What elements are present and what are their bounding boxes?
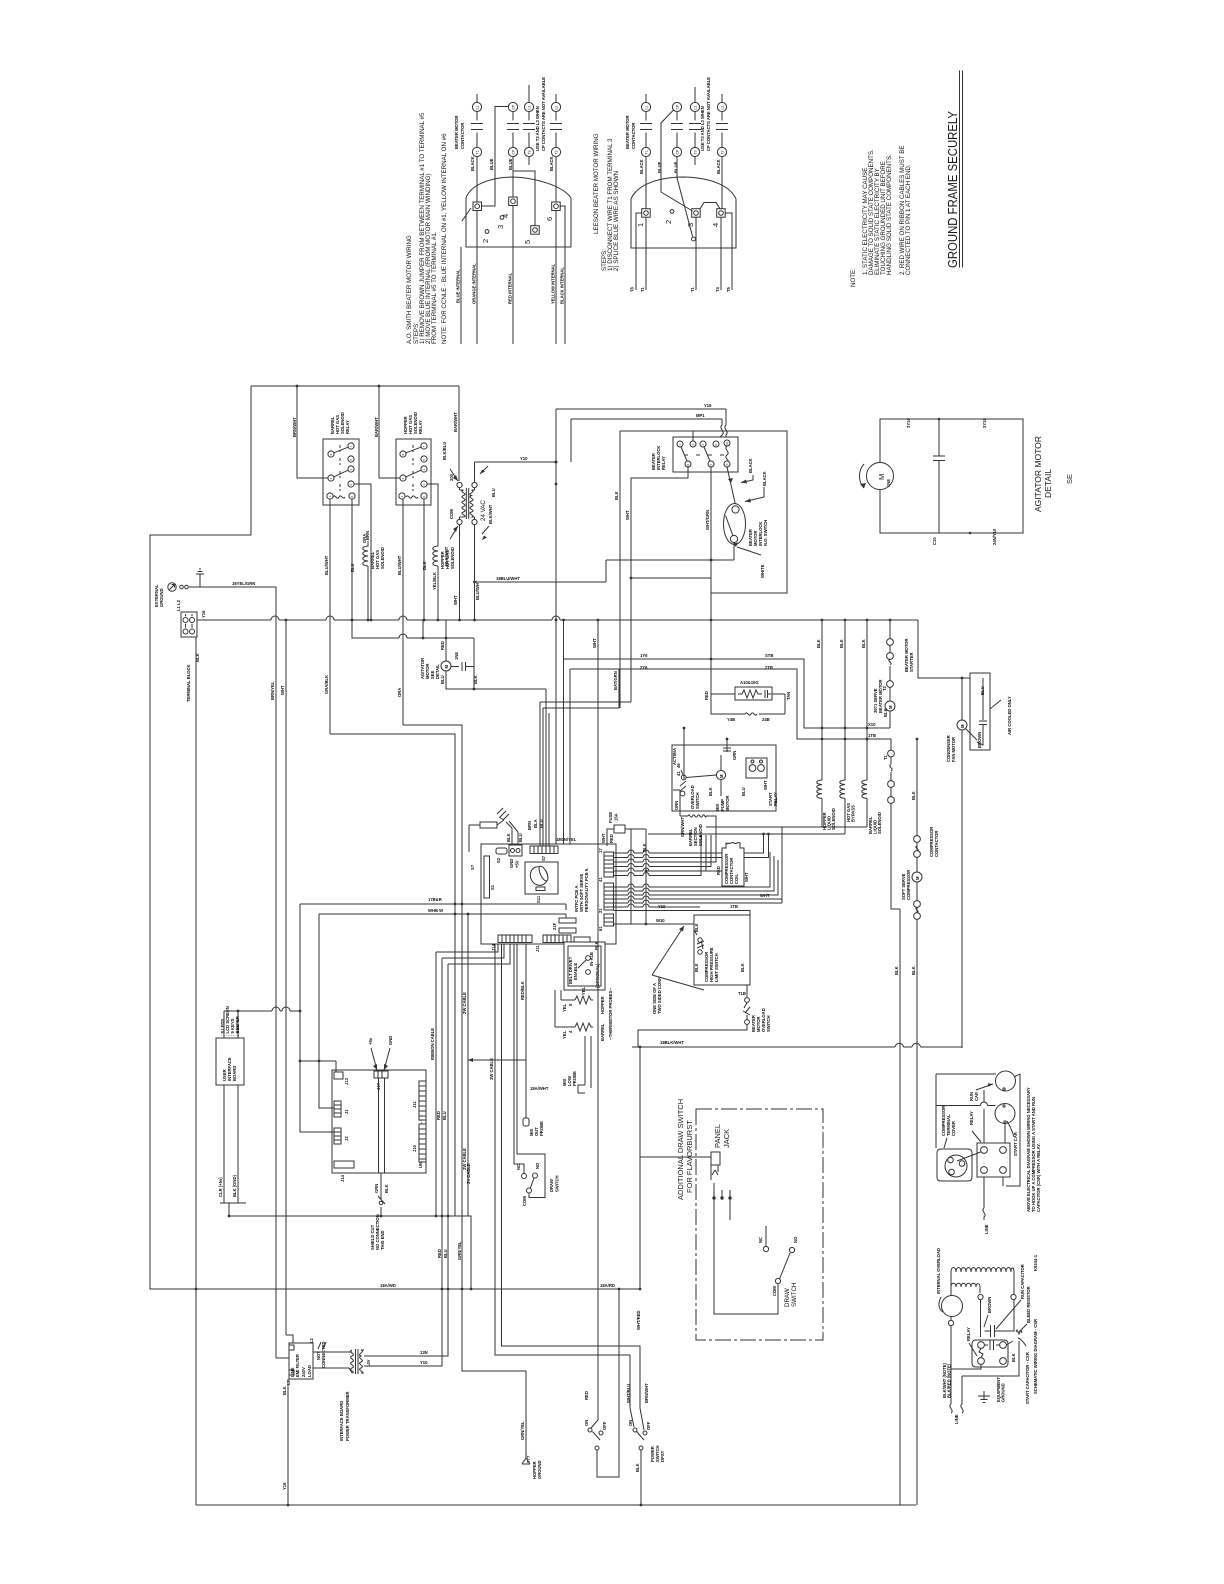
svg-text:BLACK: BLACK (748, 458, 753, 473)
svg-text:S11: S11 (536, 895, 541, 903)
svg-text:USE T3 AND L3 WHEN: USE T3 AND L3 WHEN (700, 106, 705, 151)
svg-text:RED: RED (584, 1391, 589, 1400)
svg-text:CP: CP (512, 104, 516, 109)
svg-text:CP CONTACTS ARE NOT AVAILABLE: CP CONTACTS ARE NOT AVAILABLE (541, 77, 546, 151)
svg-text:18BLU/WHT: 18BLU/WHT (496, 576, 520, 581)
svg-text:S2: S2 (496, 857, 501, 863)
svg-text:RED/BLK: RED/BLK (520, 981, 525, 1000)
svg-text:RELAY: RELAY (345, 420, 350, 434)
svg-text:CONNECTED: CONNECTED (321, 1341, 326, 1368)
svg-text:CP CONTACTS ARE NOT AVAILABLE: CP CONTACTS ARE NOT AVAILABLE (706, 77, 711, 151)
svg-text:DETAIL: DETAIL (1043, 469, 1053, 498)
svg-text:BLK: BLK (694, 923, 699, 932)
svg-text:T1: T1 (640, 286, 645, 292)
svg-text:1N8: 1N8 (886, 479, 891, 487)
svg-text:PROBE: PROBE (539, 1121, 544, 1136)
svg-text:1TB: 1TB (868, 733, 876, 738)
svg-text:J14: J14 (340, 1174, 345, 1182)
svg-text:BLACK: BLACK (470, 156, 475, 171)
svg-text:T3: T3 (694, 150, 698, 154)
svg-text:USE T3 AND L3 WHEN: USE T3 AND L3 WHEN (535, 106, 540, 151)
svg-text:1Y6: 1Y6 (640, 653, 648, 658)
svg-text:BLK: BLK (708, 787, 713, 796)
svg-text:3: 3 (496, 225, 505, 229)
svg-text:PERSONALITY PCB 9.: PERSONALITY PCB 9. (584, 868, 589, 912)
svg-text:WHT: WHT (760, 893, 770, 898)
svg-text:HANDLING SOLID STATE COMPONENT: HANDLING SOLID STATE COMPONENTS. (886, 154, 893, 275)
svg-text:GRA/BLK: GRA/BLK (324, 675, 329, 694)
svg-text:BLK: BLK (883, 708, 888, 717)
svg-text:FROM TERMINAL #5 TO TERMINAL #: FROM TERMINAL #5 TO TERMINAL #1. (431, 231, 438, 344)
svg-text:COMPRESSOR: COMPRESSOR (906, 870, 911, 900)
svg-text:BLK: BLK (350, 563, 355, 572)
svg-text:BLK/WHT: BLK/WHT (488, 504, 493, 524)
svg-text:GROUND FRAME SECURELY: GROUND FRAME SECURELY (945, 111, 960, 268)
svg-text:RUN CAPACITOR: RUN CAPACITOR (1020, 1264, 1025, 1299)
svg-text:BLU: BLU (518, 833, 523, 842)
svg-text:BRN/WHT: BRN/WHT (644, 1383, 649, 1403)
svg-text:BLACK INTERNAL: BLACK INTERNAL (560, 267, 565, 304)
svg-text:L2: L2 (555, 106, 559, 110)
svg-text:GROUND: GROUND (1001, 1383, 1006, 1402)
svg-text:YELLOW INTERNAL: YELLOW INTERNAL (551, 263, 556, 304)
svg-text:NO: NO (793, 1236, 798, 1243)
svg-text:JACK: JACK (722, 1129, 731, 1148)
svg-text:SE: SE (1065, 474, 1074, 484)
svg-text:L1: L1 (645, 106, 649, 110)
svg-text:OFF: OFF (602, 1421, 607, 1430)
svg-text:WHB W: WHB W (428, 908, 443, 913)
svg-text:GRA: GRA (362, 534, 367, 543)
svg-text:1: 1 (636, 223, 645, 227)
svg-text:BAR/WHT: BAR/WHT (453, 412, 458, 432)
svg-text:2: 2 (481, 239, 490, 243)
svg-text:3: 3 (686, 223, 695, 227)
svg-text:MOTOR: MOTOR (725, 795, 730, 811)
svg-text:BOARD: BOARD (232, 1066, 237, 1081)
svg-text:BAR/WHT: BAR/WHT (374, 417, 379, 437)
svg-text:WHT: WHT (280, 685, 285, 695)
svg-text:A.O. SMITH BEATER MOTOR WIRING: A.O. SMITH BEATER MOTOR WIRING (406, 235, 413, 344)
svg-text:41: 41 (676, 771, 681, 776)
svg-text:ADDITIONAL DRAW SWITCH: ADDITIONAL DRAW SWITCH (676, 1099, 685, 1200)
svg-text:240V: 240V (301, 1367, 306, 1377)
svg-text:T3: T3 (528, 150, 532, 154)
svg-text:L1: L1 (476, 106, 480, 110)
svg-text:BLU/WHT: BLU/WHT (397, 555, 402, 575)
svg-text:T1B: T1B (738, 991, 746, 996)
svg-text:WHT: WHT (601, 833, 606, 843)
svg-text:FAN MOTOR: FAN MOTOR (951, 737, 956, 762)
svg-text:POWER TRANSFORMER: POWER TRANSFORMER (345, 1391, 350, 1441)
svg-text:S1: S1 (490, 884, 495, 890)
svg-text:CONTACTOR: CONTACTOR (934, 831, 939, 857)
svg-text:SOLENOID: SOLENOID (450, 547, 455, 569)
svg-text:Y10: Y10 (420, 1360, 428, 1365)
svg-text:24N/Y10: 24N/Y10 (992, 528, 997, 545)
svg-text:18GN/YEL: 18GN/YEL (556, 837, 577, 842)
svg-text:BLU: BLU (741, 787, 746, 796)
svg-text:Y16: Y16 (201, 610, 206, 618)
svg-text:BLUE: BLUE (674, 161, 679, 173)
svg-text:2) SPLICE BLUE WIRE AS SHOWN: 2) SPLICE BLUE WIRE AS SHOWN (613, 171, 620, 271)
svg-text:T8: T8 (630, 286, 635, 292)
svg-text:J2: J2 (344, 1136, 349, 1141)
svg-text:LINE: LINE (954, 1414, 959, 1424)
svg-text:SOLENOID: SOLENOID (877, 812, 882, 834)
svg-text:BLK: BLK (894, 966, 899, 975)
svg-text:W10: W10 (656, 918, 665, 923)
svg-text:WHITE: WHITE (760, 564, 765, 578)
svg-text:CP: CP (676, 104, 680, 109)
svg-text:BLK (GND): BLK (GND) (232, 1175, 237, 1197)
svg-text:?7?: ?7? (526, 1455, 531, 1463)
svg-text:DRAW: DRAW (784, 1288, 791, 1307)
svg-text:LOAD: LOAD (307, 1365, 312, 1377)
svg-text:+5V: +5V (515, 860, 520, 868)
svg-text:MP1: MP1 (696, 413, 705, 418)
svg-text:21F: 21F (552, 922, 557, 930)
svg-text:LINE: LINE (984, 1224, 989, 1234)
svg-text:BLUE: BLUE (508, 158, 513, 170)
svg-text:1N8: 1N8 (454, 652, 459, 660)
svg-text:TERMINAL BLOCK: TERMINAL BLOCK (186, 664, 191, 702)
svg-text:CONTACTOR: CONTACTOR (460, 123, 465, 149)
svg-text:FUSE: FUSE (608, 812, 613, 823)
svg-text:BLK: BLK (614, 491, 619, 500)
svg-text:SWITCH: SWITCH (766, 1015, 771, 1032)
svg-text:L2: L2 (309, 1337, 314, 1343)
svg-text:WHT/BLU: WHT/BLU (626, 1384, 631, 1403)
svg-text:THIS END: THIS END (380, 1230, 385, 1250)
svg-text:J11: J11 (535, 945, 540, 952)
svg-text:CONNECTED TO PIN 1 AT EACH END: CONNECTED TO PIN 1 AT EACH END. (905, 164, 912, 275)
svg-text:WHT: WHT (592, 638, 597, 648)
svg-text:BLACK: BLACK (549, 156, 554, 171)
svg-text:K9244-1: K9244-1 (1033, 1254, 1038, 1271)
svg-text:GND: GND (509, 859, 514, 868)
svg-text:ORANGE INTERNAL: ORANGE INTERNAL (472, 263, 477, 304)
svg-text:BEATER MOTOR: BEATER MOTOR (878, 679, 883, 713)
svg-text:AGITATOR MOTOR: AGITATOR MOTOR (1033, 436, 1043, 512)
svg-text:BLACK: BLACK (716, 159, 721, 174)
svg-text:C10: C10 (932, 537, 937, 545)
svg-text:GRN: GRN (732, 751, 737, 760)
svg-text:GND: GND (388, 1036, 393, 1045)
svg-text:GRN/WHT: GRN/WHT (680, 817, 685, 837)
svg-text:L3: L3 (528, 106, 532, 110)
svg-text:COM: COM (449, 509, 454, 519)
svg-text:L1 L2: L1 L2 (176, 599, 181, 611)
svg-text:LIMIT SWITCH: LIMIT SWITCH (714, 953, 719, 982)
svg-text:SOLENOID: SOLENOID (380, 547, 385, 569)
svg-text:BRN/WHT: BRN/WHT (292, 417, 297, 437)
svg-text:SCHEMATIC WIRING DIAGRAM - CSR: SCHEMATIC WIRING DIAGRAM - CSR (1033, 1319, 1038, 1394)
svg-text:T: T (709, 464, 713, 466)
svg-text:BARREL: BARREL (600, 1023, 605, 1041)
svg-text:DRAW: DRAW (549, 1179, 554, 1192)
svg-text:N.O. SWITCH: N.O. SWITCH (763, 520, 768, 546)
svg-text:BEATER MOTOR: BEATER MOTOR (454, 115, 459, 149)
svg-text:M: M (960, 724, 965, 728)
svg-text:T5: T5 (726, 286, 731, 292)
svg-text:NO: NO (535, 1162, 540, 1169)
svg-text:RED: RED (716, 866, 721, 875)
svg-text:13N: 13N (420, 1350, 428, 1355)
svg-text:INTERNAL OVERLOAD: INTERNAL OVERLOAD (936, 1248, 941, 1294)
svg-text:A10&10G: A10&10G (740, 680, 759, 685)
svg-text:2TB: 2TB (765, 665, 773, 670)
svg-text:PANEL: PANEL (713, 1124, 722, 1148)
svg-text:T1: T1 (476, 150, 480, 154)
svg-text:ON: ON (584, 1420, 589, 1426)
svg-text:NC: NC (516, 1164, 521, 1170)
svg-text:WHT: WHT (453, 595, 458, 605)
svg-text:17B&R: 17B&R (428, 897, 442, 902)
svg-text:2W CABLE: 2W CABLE (462, 992, 467, 1014)
svg-text:COIL: COIL (734, 874, 739, 884)
svg-text:NOTE:: NOTE: (850, 268, 857, 287)
svg-text:STARTER: STARTER (909, 653, 914, 672)
svg-text:YEL: YEL (562, 1030, 567, 1039)
svg-text:WHT: WHT (763, 780, 768, 790)
svg-text:18BLK/WHT: 18BLK/WHT (660, 1040, 684, 1045)
svg-text:L3: L3 (694, 106, 698, 110)
svg-text:TAN: TAN (786, 692, 791, 700)
svg-text:RED: RED (437, 1249, 442, 1258)
svg-text:BLK/BLU: BLK/BLU (442, 442, 447, 460)
svg-text:AIR COOLED ONLY: AIR COOLED ONLY (1007, 696, 1012, 735)
svg-text:Y16: Y16 (704, 403, 712, 408)
svg-text:COM: COM (772, 1286, 777, 1296)
svg-text:GROUND: GROUND (159, 588, 164, 607)
svg-text:BROWN: BROWN (987, 1297, 992, 1313)
svg-text:BLK: BLK (422, 561, 427, 570)
svg-text:18A/RD: 18A/RD (600, 1283, 615, 1288)
svg-text:1TB: 1TB (730, 904, 738, 909)
svg-text:SWITCH: SWITCH (555, 1175, 560, 1192)
svg-text:BLACK: BLACK (762, 471, 767, 486)
svg-text:CONTACTOR: CONTACTOR (631, 123, 636, 149)
svg-text:BLU: BLU (980, 686, 985, 695)
svg-text:M: M (719, 774, 724, 778)
svg-text:M: M (915, 876, 920, 880)
svg-text:STB: STB (765, 653, 773, 658)
svg-text:IN-A1B: IN-A1B (589, 952, 594, 966)
svg-text:ORA: ORA (397, 688, 402, 697)
svg-text:21: 21 (598, 908, 603, 913)
svg-text:ORN: ORN (674, 801, 679, 810)
svg-text:3W CABLE: 3W CABLE (489, 1058, 494, 1080)
svg-text:RED INTERNAL: RED INTERNAL (508, 272, 513, 304)
svg-text:CP: CP (676, 149, 680, 154)
svg-text:DETAIL: DETAIL (435, 664, 440, 679)
svg-text:BLK: BLK (816, 639, 821, 648)
svg-text:61: 61 (598, 926, 603, 931)
svg-text:4: 4 (711, 223, 720, 227)
svg-text:BLK: BLK (861, 639, 866, 648)
svg-text:CLR (+5v): CLR (+5v) (218, 1177, 223, 1197)
svg-text:CAP.: CAP. (974, 1092, 979, 1101)
svg-text:16YEL/GRN: 16YEL/GRN (232, 581, 255, 586)
svg-text:BLK: BLK (473, 675, 478, 684)
svg-text:BLUE INTERNAL: BLUE INTERNAL (456, 269, 461, 303)
svg-text:+5v: +5v (368, 1037, 373, 1045)
svg-text:TWO SIDED CONN: TWO SIDED CONN (657, 977, 662, 1014)
svg-text:18A/WD: 18A/WD (380, 1283, 396, 1288)
svg-text:T1: T1 (645, 150, 649, 154)
svg-text:S7: S7 (541, 855, 546, 861)
svg-text:RELAY: RELAY (773, 792, 778, 806)
svg-text:ENABLE: ENABLE (573, 963, 578, 980)
svg-text:Y10: Y10 (658, 904, 666, 909)
svg-text:BLK: BLK (740, 963, 745, 972)
svg-text:RED: RED (609, 834, 614, 843)
svg-text:T4: T4 (715, 286, 720, 292)
svg-text:GRN/YEL: GRN/YEL (520, 1421, 525, 1440)
svg-text:BLK: BLK (1011, 1353, 1016, 1362)
svg-text:T2: T2 (555, 150, 559, 154)
svg-text:GRN: GRN (374, 1184, 379, 1193)
svg-text:18A/WHT: 18A/WHT (530, 1086, 549, 1091)
svg-text:24 VAC: 24 VAC (480, 500, 487, 521)
svg-text:PROBE: PROBE (572, 1071, 577, 1086)
svg-text:RED: RED (704, 691, 709, 700)
svg-text:LEESON BEATER MOTOR WIRING: LEESON BEATER MOTOR WIRING (593, 133, 600, 234)
svg-text:T2: T2 (721, 150, 725, 154)
svg-text:EMI FILTER: EMI FILTER (295, 1354, 300, 1377)
svg-text:WHT: WHT (625, 510, 630, 520)
svg-text:BLK/RED (NOTE): BLK/RED (NOTE) (947, 1363, 952, 1398)
svg-text:CAPACITOR (CSR) WITH A RELAY.: CAPACITOR (CSR) WITH A RELAY. (1036, 1143, 1041, 1212)
svg-text:WHT/GRN: WHT/GRN (705, 510, 710, 530)
svg-text:BLK: BLK (635, 1463, 640, 1472)
svg-text:3V CABLE: 3V CABLE (466, 1163, 471, 1184)
svg-text:BLU: BLU (442, 1111, 447, 1120)
svg-text:T1: T1 (690, 286, 695, 292)
svg-text:BLUE: BLUE (489, 158, 494, 170)
svg-text:M: M (888, 705, 893, 709)
svg-text:BAT/GRN: BAT/GRN (613, 671, 618, 690)
svg-text:BLK: BLK (506, 833, 511, 842)
svg-text:2Y6: 2Y6 (640, 665, 648, 670)
svg-text:BLU: BLU (539, 819, 544, 828)
svg-text:3Y10: 3Y10 (982, 418, 987, 428)
svg-text:BLU: BLU (491, 488, 496, 497)
svg-text:NOTE: FOR CCNLE - BLUE INTERNA: NOTE: FOR CCNLE - BLUE INTERNAL ON #1, Y… (441, 133, 448, 344)
svg-text:NC: NC (758, 1237, 763, 1243)
svg-text:INTERFACE BOARD: INTERFACE BOARD (339, 1401, 344, 1441)
svg-text:COVER: COVER (951, 1121, 956, 1136)
svg-text:BLK: BLK (195, 653, 200, 662)
svg-text:24B: 24B (762, 717, 770, 722)
svg-text:5: 5 (523, 240, 532, 244)
svg-text:J1: J1 (344, 1109, 349, 1114)
svg-text:BLK: BLK (694, 963, 699, 972)
svg-text:YEL/BLK: YEL/BLK (432, 572, 437, 590)
svg-text:BLU: BLU (443, 1249, 448, 1258)
svg-text:X10: X10 (868, 722, 876, 727)
svg-text:SWITCH: SWITCH (791, 1283, 798, 1307)
svg-text:WHT: WHT (744, 872, 749, 882)
svg-text:WHT/RED: WHT/RED (636, 1310, 641, 1330)
svg-text:BLK: BLK (642, 843, 647, 852)
svg-text:BLEED RESISTOR: BLEED RESISTOR (1026, 1286, 1031, 1323)
svg-text:BEATER MOTOR: BEATER MOTOR (625, 115, 630, 149)
svg-text:41: 41 (598, 877, 603, 882)
svg-text:RED: RED (436, 1111, 441, 1120)
svg-text:BLK: BLK (384, 1184, 389, 1193)
svg-text:BRN/YEL: BRN/YEL (270, 681, 275, 700)
svg-text:GRN/YEL: GRN/YEL (457, 1241, 462, 1260)
svg-text:RELAY: RELAY (966, 1327, 971, 1341)
svg-text:BLU: BLU (440, 675, 445, 684)
svg-text:RED: RED (440, 641, 445, 650)
svg-text:17: 17 (598, 848, 603, 853)
svg-text:SWITCH: SWITCH (695, 792, 700, 809)
svg-text:Y16: Y16 (282, 1482, 287, 1490)
svg-text:RELAY: RELAY (969, 1111, 974, 1125)
svg-text:T1: T1 (883, 754, 888, 760)
svg-text:YEL: YEL (562, 1003, 567, 1012)
svg-text:DPST: DPST (660, 1450, 665, 1462)
svg-text:BLK: BLK (911, 966, 916, 975)
svg-text:M: M (444, 665, 449, 669)
svg-text:BLU/WHT: BLU/WHT (475, 580, 480, 600)
svg-text:Y4B: Y4B (727, 717, 735, 722)
svg-text:COM: COM (522, 1196, 527, 1206)
svg-text:BLACK: BLACK (639, 159, 644, 174)
svg-text:BLK: BLK (282, 1386, 287, 1395)
svg-text:S?: S? (470, 864, 475, 870)
svg-text:BLK: BLK (839, 639, 844, 648)
svg-text:SOLENOID: SOLENOID (698, 824, 703, 846)
svg-text:BLA: BLA (533, 819, 538, 828)
svg-text:BROWN: BROWN (977, 732, 982, 748)
svg-text:RIBBON CABLE: RIBBON CABLE (430, 1028, 435, 1060)
svg-text:J10: J10 (412, 1144, 417, 1152)
svg-text:START CAPACITOR - CSR: START CAPACITOR - CSR (1025, 1352, 1030, 1404)
svg-text:YEL: YEL (581, 986, 586, 995)
svg-text:3Y10: 3Y10 (906, 418, 911, 428)
svg-text:RELAY: RELAY (418, 420, 423, 434)
svg-text:FOR FLAVORBURST: FOR FLAVORBURST (685, 1120, 694, 1193)
svg-text:BLU/WHT: BLU/WHT (324, 555, 329, 575)
svg-text:GROUND: GROUND (537, 1460, 542, 1479)
svg-text:BLK/WHT: BLK/WHT (444, 546, 449, 566)
svg-text:ACT8NA: ACT8NA (672, 748, 677, 765)
svg-text:J13: J13 (344, 1077, 349, 1085)
svg-text:S: S (725, 463, 729, 465)
svg-text:J11: J11 (412, 1101, 417, 1108)
svg-text:HOPPER: HOPPER (600, 996, 605, 1014)
svg-text:Y10: Y10 (520, 456, 528, 461)
svg-text:CP: CP (512, 149, 516, 154)
svg-text:6: 6 (545, 217, 554, 221)
svg-text:RELAY: RELAY (661, 456, 666, 470)
svg-text:M: M (877, 474, 886, 480)
svg-text:--THERMISTOR PROBES--: --THERMISTOR PROBES-- (608, 987, 613, 1040)
svg-text:2: 2 (664, 220, 673, 224)
svg-text:BYPASS: BYPASS (851, 805, 856, 822)
svg-text:4: 4 (501, 214, 510, 218)
svg-text:15A: 15A (614, 813, 619, 821)
svg-text:46: 46 (676, 763, 681, 768)
svg-text:L2: L2 (721, 106, 725, 110)
svg-text:BLK: BLK (911, 791, 916, 800)
svg-text:OFF: OFF (646, 1421, 651, 1430)
svg-text:BRN: BRN (527, 821, 532, 830)
